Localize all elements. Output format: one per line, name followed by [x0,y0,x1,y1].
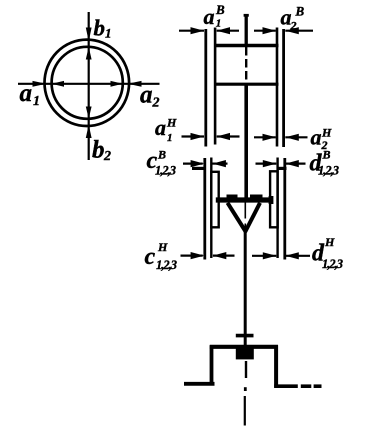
V left arm [228,203,246,232]
hat top [210,345,278,349]
left hat tick [227,195,238,199]
hat bottom right dash [301,384,312,388]
axis dot [244,387,247,391]
box top [214,44,279,47]
vertical dimension line through circle [88,12,90,160]
svg-text:H: H [157,240,168,254]
arrow inner right [111,81,123,87]
label a1B [204,2,226,30]
axis dash 1 [245,361,247,378]
svg-text:1: 1 [167,132,173,144]
label d 1,2,3 H [312,235,343,271]
svg-text:b: b [94,16,106,41]
svg-text:B: B [295,4,305,19]
valve bar [216,197,273,202]
right box wall / witness line [276,28,279,147]
svg-text:a: a [140,82,153,109]
dim a1H line [182,135,205,137]
label c 1,2,3 B [147,148,176,178]
axis dash 2 [244,396,246,426]
hat left vertical [210,345,214,385]
svg-text:1,2,3: 1,2,3 [318,164,339,178]
valve rod (stem) upper [245,14,248,47]
left top cap [192,167,206,170]
arrow a1 right at outer left [33,81,47,87]
horizontal dimension line through circle [18,83,160,85]
left box wall / witness line [214,28,217,145]
right top cap [278,167,287,170]
arrow inner bottom down [86,107,92,119]
svg-text:1,2,3: 1,2,3 [156,258,177,272]
dim cH line [181,255,203,257]
svg-text:a: a [20,80,33,107]
label a2B [281,4,305,33]
svg-text:a: a [311,125,322,150]
label a1H [155,115,177,144]
right hat tick [250,195,263,199]
svg-text:1: 1 [216,18,222,30]
label c 1,2,3 H [145,240,177,272]
svg-text:B: B [322,148,331,162]
dim a1B line [179,30,204,32]
dim a2H line [254,136,276,138]
svg-text:B: B [157,148,166,162]
gland block [236,348,254,360]
hat bottom right dash 2 [314,384,322,388]
svg-text:2: 2 [103,149,111,164]
label b1 [94,16,112,41]
arrow inner top up [86,47,92,60]
middle section: left guide rect line [210,158,212,259]
label a2 (circle) [140,82,160,111]
box bottom [214,83,279,86]
V right arm [245,203,260,232]
arrow inner left [52,81,65,87]
svg-text:b: b [92,137,105,164]
svg-text:1,2,3: 1,2,3 [322,257,343,271]
label a1 (circle) [20,80,41,109]
svg-text:2: 2 [152,96,160,111]
right rail [282,29,285,147]
dim dH line [252,255,276,257]
dim a2B line [254,30,276,32]
svg-text:a: a [204,4,215,29]
svg-text:H: H [324,235,335,249]
dim dB line [256,163,277,165]
label a2H [311,125,333,153]
svg-text:c: c [145,244,156,270]
outer circle [45,40,130,126]
inner circle [52,47,123,119]
svg-text:H: H [166,116,177,130]
left guide rect [211,172,218,228]
hat bottom left [184,382,215,386]
svg-text:2: 2 [290,19,297,33]
hat bottom right [274,384,298,388]
svg-text:B: B [215,2,225,17]
svg-text:H: H [321,126,332,140]
dim cB line [183,163,203,165]
label d 1,2,3 B [310,148,339,178]
washer [236,334,254,338]
junction blob right [269,196,274,204]
left rail [204,29,207,147]
right guide rect [270,171,278,227]
svg-text:a: a [155,115,166,140]
arrow a2 left at outer right [128,81,142,87]
hat right vertical [274,345,278,388]
stem lower [244,229,247,346]
arrow b2 up at outer bottom [86,125,92,139]
right guide rect line [276,158,278,259]
arrow b1 down at outer top [86,28,92,42]
svg-text:1,2,3: 1,2,3 [155,164,176,178]
thin axis inside V [244,203,246,219]
svg-text:1: 1 [33,94,40,109]
svg-text:1: 1 [105,26,112,41]
label b2 [92,137,111,165]
